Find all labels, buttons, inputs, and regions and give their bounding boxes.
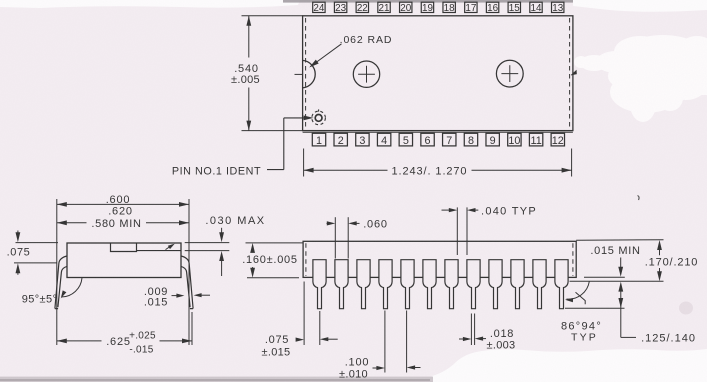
dimension .580 MIN [57, 222, 87, 224]
pin 14 (top view lead box) [530, 2, 542, 12]
pin 11 (side view lead) [533, 260, 546, 309]
pin 10 (top view lead box) [508, 133, 521, 146]
dimension .060 arrows [327, 222, 333, 224]
pin 16 (top view lead box) [486, 2, 498, 12]
dimension line 1.243/1.270 [304, 169, 388, 171]
pin 1 (side view lead) [313, 260, 326, 309]
lid seam line (end view) [137, 250, 182, 252]
body top extension line right [576, 239, 663, 242]
smudge artifact right [679, 302, 693, 315]
pin tip extension line [565, 307, 625, 309]
extension lines .060 [334, 217, 336, 258]
dimension .075 arrows (side view) [298, 339, 301, 341]
pin 19 (top view lead box) [421, 2, 433, 12]
pin 12 (top view lead box) [551, 133, 564, 146]
pin 22 (top view lead box) [356, 2, 368, 12]
dimension arc 86-94 degrees [567, 281, 590, 299]
grey paper edge top [283, 0, 573, 3]
stray mark artifact [638, 196, 640, 201]
leader arrow to pin no.1 ident [284, 117, 309, 119]
pin 9 (top view lead box) [486, 133, 499, 146]
extension line .075 top [16, 242, 59, 244]
dimension .075 arrows (end view) [17, 231, 19, 239]
hidden edge dashed left (top view) [305, 18, 307, 129]
pin 2 (side view lead) [335, 260, 348, 309]
pin 7 (side view lead) [445, 260, 458, 309]
pin 3 (top view lead box) [356, 133, 369, 146]
pin 11 (top view lead box) [529, 133, 542, 146]
extension line 1.270 right [571, 149, 573, 177]
extension line .075 pin center [319, 311, 321, 345]
extension line .540 top [242, 15, 303, 17]
pin 18 (top view lead box) [443, 2, 455, 12]
white scan strip top-right [573, 0, 707, 12]
white-out cloud blob right [617, 35, 707, 85]
dimension .170/.210 arrows [659, 244, 661, 255]
dimension .040 arrows [442, 209, 455, 211]
pin 6 (top view lead box) [421, 133, 434, 146]
leader .062 RAD [311, 44, 342, 67]
pin 10 (side view lead) [511, 260, 524, 309]
notch center tick [295, 73, 303, 75]
pin 3 (side view lead) [357, 260, 370, 309]
index tick right edge (top view) [571, 71, 576, 76]
extension line .030 MAX upper [185, 242, 230, 244]
extension lines .100 [384, 311, 386, 373]
leader elbow pin no.1 ident [283, 118, 285, 170]
extension line .160 top [246, 242, 303, 244]
pin no.1 ident tick [318, 109, 320, 111]
extension line 1.243 left [303, 149, 305, 177]
extension line .075 body edge [303, 282, 305, 346]
pin 9 (side view lead) [489, 260, 502, 309]
body bottom extension line right [584, 276, 625, 278]
package body (end view) [67, 243, 181, 278]
package body (top view) [303, 16, 573, 131]
package body (side view) [303, 241, 576, 277]
pin 2 (top view lead box) [334, 133, 347, 146]
pin 1 (top view lead box) [312, 133, 325, 146]
package body bottom edge (thick) [303, 131, 573, 133]
leader 86-94 degrees [576, 292, 586, 304]
leader .009/.015 right arrow [197, 294, 210, 296]
dimension .600 [57, 203, 189, 205]
dimension .540 +/-.005 vertical [248, 16, 250, 58]
pin no.1 ident dashed circle [312, 111, 326, 125]
dimension .625 [57, 340, 102, 342]
extension line .160 bottom [247, 277, 299, 279]
dimension .015 MIN arrow [620, 258, 622, 273]
index notch semicircle on left edge [303, 60, 316, 88]
extension line left (end view) [56, 199, 58, 345]
seam arrowhead mark [166, 245, 173, 250]
pin 4 (top view lead box) [377, 133, 390, 146]
pin 5 (side view lead) [401, 260, 414, 309]
leader elbow .125/.140 [621, 336, 636, 338]
mounting hole circle right with cross [496, 60, 523, 87]
extension lines .040 TYP [456, 207, 458, 255]
pin 4 (side view lead) [379, 260, 392, 309]
extension line .075 bottom [14, 262, 57, 264]
pin 20 (top view lead box) [400, 2, 412, 12]
grey paper edge bottom [0, 377, 433, 382]
dimension .100 arrows [373, 367, 382, 369]
extension line lead tip right (.625) [191, 312, 193, 345]
white scan strip top-left [0, 0, 300, 8]
pin 8 (top view lead box) [464, 133, 477, 146]
hidden edge dashed left (side view) [305, 243, 307, 276]
pin 15 (top view lead box) [508, 2, 520, 12]
pin no.1 ident dot [315, 115, 322, 122]
pin 5 (top view lead box) [399, 133, 412, 146]
dimension .030 MAX arrows [221, 228, 223, 239]
pin 8 (side view lead) [467, 260, 480, 309]
hidden edge dashed right (top view) [569, 18, 571, 129]
extension lines .018 [470, 314, 472, 346]
index notch (end view) [111, 243, 137, 252]
extension line .030 MAX lower [185, 250, 230, 252]
mounting hole circle left with cross [353, 61, 379, 87]
pin 13 (top view lead box) [552, 2, 564, 12]
extension line right (end view) [188, 199, 190, 345]
pin 24 (top view lead box) [313, 2, 325, 12]
left lead (end view) [55, 256, 67, 309]
dimension arc 95 degrees [62, 278, 83, 297]
dimension .125/.140 arrows [620, 285, 622, 337]
pin 21 (top view lead box) [378, 2, 390, 12]
dimension .018 arrows [459, 338, 468, 340]
pin 17 (top view lead box) [465, 2, 477, 12]
hidden edge dashed right (side view) [572, 243, 574, 276]
pin 23 (top view lead box) [334, 2, 346, 12]
pin 6 (side view lead) [423, 260, 436, 309]
pin 12 (side view lead) [555, 260, 568, 309]
pin 7 (top view lead box) [443, 133, 456, 146]
leader .009/.015 left arrow [172, 295, 182, 297]
white-out region bottom-right [430, 349, 707, 382]
seating plane line [570, 280, 664, 282]
extension line .540 bottom [242, 130, 303, 132]
right lead (end view) [181, 256, 193, 309]
dimension .160 arrows [252, 247, 254, 252]
